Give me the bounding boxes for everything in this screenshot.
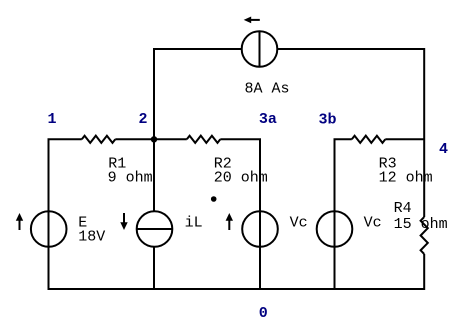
current source As (top)	[242, 31, 278, 67]
svg-text:4: 4	[439, 141, 448, 158]
voltage source Vc (second)	[317, 211, 353, 247]
svg-text:3b: 3b	[319, 112, 337, 129]
svg-text:0: 0	[259, 305, 268, 322]
svg-text:12 ohm: 12 ohm	[379, 169, 433, 186]
resistor R3	[352, 136, 386, 143]
svg-text:Vc: Vc	[290, 215, 308, 232]
arrow for E (pointing up)	[16, 213, 23, 221]
arrow for iL (pointing down)	[120, 222, 127, 230]
svg-text:8A As: 8A As	[245, 81, 290, 98]
svg-text:20 ohm: 20 ohm	[214, 169, 268, 186]
wire top-right horizontal from As source and right vertical down to R4	[277, 49, 424, 217]
resistor R2	[187, 136, 221, 143]
svg-text:2: 2	[139, 111, 148, 128]
svg-text:15 ohm: 15 ohm	[394, 216, 448, 233]
junction dot node 2	[151, 136, 157, 142]
wire node 3b corner to R3 and vertical through Vc source	[335, 139, 352, 289]
resistor R4 vertical	[421, 217, 428, 254]
voltage source Vc (first)	[242, 211, 278, 247]
wire R3 to node 4	[385, 138, 424, 140]
arrow for Vc (pointing up)	[226, 213, 233, 221]
free dot marker	[211, 196, 217, 202]
svg-text:R4: R4	[394, 200, 412, 217]
wire R2 to node 3a corner and vertical through Vc source down to bottom	[220, 139, 260, 289]
wire node2 vertical up and top-left horizontal to As source	[154, 49, 242, 139]
current source iL	[137, 211, 173, 247]
wire iL upper stub from node 2 dot	[153, 139, 155, 211]
svg-text:3a: 3a	[259, 111, 277, 128]
svg-text:iL: iL	[185, 215, 203, 232]
arrow for As (pointing left)	[244, 17, 252, 24]
svg-text:1: 1	[48, 111, 57, 128]
svg-text:18V: 18V	[78, 229, 105, 246]
wire R1 to node2 to R2	[115, 138, 187, 140]
voltage source E	[31, 211, 67, 247]
wire node1 corner, left vertical through E source, bottom rail, up to R4 bottom	[49, 139, 425, 289]
svg-text:Vc: Vc	[364, 215, 382, 232]
wire iL lower stub to bottom rail	[153, 247, 155, 289]
svg-text:9 ohm: 9 ohm	[108, 169, 153, 186]
resistor R1	[82, 136, 116, 143]
